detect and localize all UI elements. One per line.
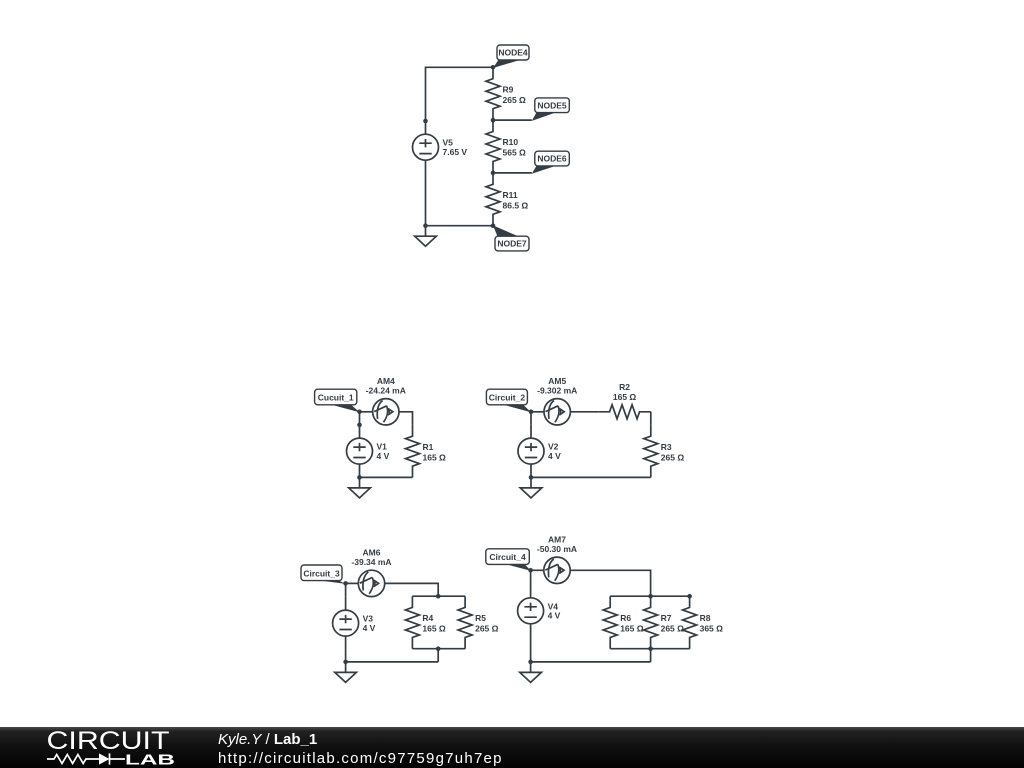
resistor R3 xyxy=(644,425,658,478)
svg-text:R9: R9 xyxy=(503,84,514,94)
voltage source V3 xyxy=(333,597,359,650)
svg-text:AM7: AM7 xyxy=(548,534,566,544)
wire rail down to bottom circuit3 xyxy=(437,649,439,662)
junction dot V5 bottom xyxy=(423,223,428,228)
wire bottom circuit1 xyxy=(360,476,413,478)
label AM5 reading xyxy=(537,376,577,396)
wire bottom rail circuit4 xyxy=(610,648,689,650)
node Circuit_2 xyxy=(486,389,531,412)
svg-text:265 Ω: 265 Ω xyxy=(661,452,685,462)
junction dot V5 top terminal xyxy=(423,119,428,124)
resistor R4 xyxy=(405,596,419,649)
voltage source V5 xyxy=(413,121,439,174)
junction dot node Circuit_3 xyxy=(343,581,348,586)
node NODE5 xyxy=(493,98,569,121)
ammeter AM6 xyxy=(358,570,384,596)
svg-text:Circuit_4: Circuit_4 xyxy=(489,552,526,562)
footer bar xyxy=(0,727,1024,768)
svg-text:R6: R6 xyxy=(620,613,631,623)
svg-text:86.5 Ω: 86.5 Ω xyxy=(503,201,529,211)
svg-text:NODE6: NODE6 xyxy=(537,154,567,164)
svg-text:CIRCUIT: CIRCUIT xyxy=(47,727,170,755)
svg-text:4 V: 4 V xyxy=(377,451,390,461)
resistor R1 xyxy=(406,425,420,478)
svg-text:-39.34 mA: -39.34 mA xyxy=(351,557,391,567)
svg-text:-50.30 mA: -50.30 mA xyxy=(537,544,577,554)
svg-text:LAB: LAB xyxy=(125,752,175,768)
label R6 165 Ω xyxy=(620,613,644,634)
wire top rail circuit3 xyxy=(412,595,465,597)
svg-text:4 V: 4 V xyxy=(548,611,561,621)
wire node to AM7 xyxy=(531,569,544,571)
ammeter AM5 xyxy=(544,399,570,425)
wire AM6 to parallel network xyxy=(385,583,439,596)
label V5 7.65 V xyxy=(443,138,468,157)
junction dot V1 top terminal xyxy=(357,423,362,428)
logo diode glyph xyxy=(99,753,125,764)
svg-text:AM5: AM5 xyxy=(548,376,566,386)
wire top rail circuit4 xyxy=(610,595,689,597)
wire node to AM4 xyxy=(360,411,373,413)
label R2 165 Ω xyxy=(613,382,637,402)
wire V3 bottom xyxy=(345,649,347,662)
ground circuit1 xyxy=(349,477,371,498)
svg-text:265 Ω: 265 Ω xyxy=(475,624,499,634)
svg-text:R7: R7 xyxy=(661,613,672,623)
footer url line xyxy=(218,750,503,767)
svg-text:265 Ω: 265 Ω xyxy=(503,95,527,105)
svg-text:NODE4: NODE4 xyxy=(498,48,528,58)
label R5 265 Ω xyxy=(475,613,499,634)
wire bottom circuit2 xyxy=(531,476,651,478)
resistor R6 xyxy=(603,596,617,649)
wire bottom circuit4 xyxy=(531,661,651,663)
wire R2 to R3 xyxy=(650,412,652,425)
junction dot NODE5 xyxy=(491,118,496,123)
svg-text:AM4: AM4 xyxy=(377,376,395,386)
svg-text:Circuit_3: Circuit_3 xyxy=(303,568,340,578)
node NODE7 xyxy=(493,225,529,251)
wire node to AM6 xyxy=(346,582,359,584)
label R11 86.5 Ω xyxy=(503,190,529,211)
svg-text:165 Ω: 165 Ω xyxy=(423,452,447,462)
resistor R9 xyxy=(486,67,500,120)
voltage source V1 xyxy=(347,425,373,478)
junction dot NODE4 xyxy=(491,65,496,70)
junction dot V4 bottom xyxy=(528,660,533,665)
svg-text:Circuit_2: Circuit_2 xyxy=(489,393,526,403)
wire AM7 to parallel network xyxy=(570,570,650,596)
resistor R7 xyxy=(644,596,658,649)
svg-text:NODE5: NODE5 xyxy=(537,100,567,110)
resistor R5 xyxy=(458,596,472,649)
voltage source V2 xyxy=(518,425,544,478)
ground xyxy=(415,226,437,247)
junction dot NODE7 xyxy=(491,223,496,228)
junction dot node Circuit_4 xyxy=(528,568,533,573)
label R8 365 Ω xyxy=(700,613,724,634)
junction dot V3 bottom xyxy=(343,660,348,665)
label R7 265 Ω xyxy=(661,613,685,634)
ammeter AM4 xyxy=(373,399,399,425)
wire node to V1 xyxy=(359,412,361,425)
label R4 165 Ω xyxy=(422,613,446,634)
svg-text:365 Ω: 365 Ω xyxy=(700,624,724,634)
resistor R8 xyxy=(683,596,697,649)
wire node to V2 xyxy=(530,412,532,425)
label AM7 reading xyxy=(537,534,577,554)
logo resistor glyph xyxy=(47,755,99,764)
svg-text:-9.302 mA: -9.302 mA xyxy=(537,386,577,396)
svg-text:7.65 V: 7.65 V xyxy=(443,147,468,157)
svg-text:R11: R11 xyxy=(503,190,518,200)
wire bottom horizontal to R11 xyxy=(426,225,494,227)
junction dot V1 bottom xyxy=(357,475,362,480)
CircuitLab logo xyxy=(43,727,203,768)
label R1 165 Ω xyxy=(423,442,447,463)
label AM6 reading xyxy=(351,547,391,567)
wire rail down to bottom circuit4 xyxy=(650,649,652,662)
node Circuit_3 xyxy=(301,565,346,584)
node Cucuit_1 xyxy=(315,389,360,412)
svg-text:NODE7: NODE7 xyxy=(497,239,527,249)
label V2 4 V xyxy=(548,442,561,461)
svg-text:R1: R1 xyxy=(423,442,434,452)
svg-text:565 Ω: 565 Ω xyxy=(503,148,527,158)
voltage source V4 xyxy=(518,585,544,638)
node NODE6 xyxy=(493,151,569,174)
svg-text:R5: R5 xyxy=(475,613,486,623)
node Circuit_4 xyxy=(486,549,531,571)
svg-text:R8: R8 xyxy=(700,613,711,623)
wire bottom circuit3 xyxy=(346,661,439,663)
label R10 565 Ω xyxy=(503,137,527,158)
junction dot bottom rail circuit3 xyxy=(436,646,441,651)
label AM4 reading xyxy=(366,376,406,396)
svg-text:R10: R10 xyxy=(503,137,519,147)
wire node to V4 xyxy=(530,570,532,584)
junction dot node Circuit_2 xyxy=(529,410,534,415)
svg-text:165 Ω: 165 Ω xyxy=(620,624,644,634)
footer author line xyxy=(218,731,317,748)
svg-text:Cucuit_1: Cucuit_1 xyxy=(318,393,354,403)
junction dot NODE6 xyxy=(491,171,496,176)
resistor R11 xyxy=(486,173,500,226)
wire from V5 top to R9 top xyxy=(426,67,494,121)
wire node to V3 xyxy=(345,583,347,596)
label R3 265 Ω xyxy=(661,442,685,463)
node NODE4 xyxy=(493,45,529,68)
wire bottom rail circuit3 xyxy=(412,648,465,650)
wire from V5 bottom down xyxy=(425,173,427,225)
ammeter AM7 xyxy=(544,557,570,583)
junction dot top rail circuit4 at R7 xyxy=(648,594,653,599)
junction dot bottom rail circuit4 xyxy=(648,646,653,651)
resistor R10 xyxy=(486,120,500,173)
svg-text:-24.24 mA: -24.24 mA xyxy=(366,386,406,396)
ground circuit3 xyxy=(335,662,357,683)
wire AM5 to R2 xyxy=(570,411,598,413)
resistor R2 xyxy=(598,405,651,419)
junction dot top rail circuit3 xyxy=(436,594,441,599)
svg-text:165 Ω: 165 Ω xyxy=(613,392,637,402)
ground circuit2 xyxy=(520,477,542,498)
label V4 4 V xyxy=(548,601,561,620)
wire node to AM5 xyxy=(531,411,544,413)
label V1 4 V xyxy=(377,442,390,461)
wire V4 bottom xyxy=(530,637,532,662)
svg-text:R4: R4 xyxy=(422,613,433,623)
label R9 265 Ω xyxy=(503,84,527,105)
svg-text:165 Ω: 165 Ω xyxy=(422,624,446,634)
svg-text:R3: R3 xyxy=(661,442,672,452)
svg-text:AM6: AM6 xyxy=(363,547,381,557)
svg-text:4 V: 4 V xyxy=(363,623,376,633)
label V3 4 V xyxy=(363,614,376,633)
junction dot V2 bottom xyxy=(529,475,534,480)
svg-text:R2: R2 xyxy=(619,382,630,392)
ground circuit4 xyxy=(520,662,542,683)
svg-text:4 V: 4 V xyxy=(548,451,561,461)
wire AM4 to R1 xyxy=(399,412,413,425)
junction dot node Cucuit_1 xyxy=(357,410,362,415)
svg-text:265 Ω: 265 Ω xyxy=(661,624,685,634)
junction dot top rail circuit4 at R8 xyxy=(687,594,692,599)
